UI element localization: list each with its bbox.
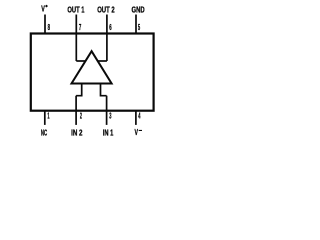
- svg-text:7: 7: [79, 23, 81, 32]
- svg-text:NC: NC: [41, 128, 47, 137]
- svg-text:GND: GND: [132, 5, 145, 14]
- svg-text:IN 1: IN 1: [103, 128, 114, 137]
- svg-text:IN 2: IN 2: [71, 128, 83, 137]
- svg-text:V: V: [41, 5, 45, 14]
- svg-text:OUT 1: OUT 1: [67, 5, 85, 14]
- svg-text:5: 5: [138, 23, 141, 32]
- svg-text:6: 6: [109, 23, 112, 32]
- svg-text:8: 8: [48, 23, 51, 32]
- svg-text:V: V: [135, 128, 139, 137]
- svg-text:2: 2: [80, 111, 82, 120]
- svg-text:1: 1: [47, 111, 50, 120]
- svg-text:4: 4: [138, 111, 141, 120]
- svg-text:OUT 2: OUT 2: [97, 5, 115, 14]
- svg-text:3: 3: [109, 111, 112, 120]
